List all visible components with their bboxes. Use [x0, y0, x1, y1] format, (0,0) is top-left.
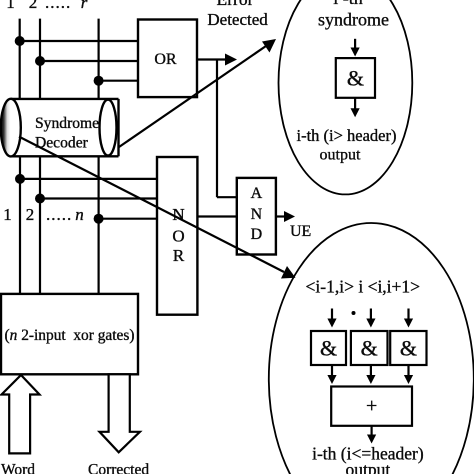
wire syndrome bit n vertical (bottom) — [97, 156, 99, 294]
svg-text:output: output — [320, 147, 361, 164]
arrow out of plus box — [371, 426, 373, 437]
& box 2 — [351, 331, 388, 365]
svg-text:&: & — [361, 336, 378, 361]
wire OR output branch down to AND — [216, 60, 218, 198]
wire syndrome bit 2 vertical (bottom) — [39, 156, 41, 294]
arrow out of & box 2 — [370, 365, 372, 378]
syndrome decoder cylinder body — [11, 99, 119, 156]
svg-text:i-th (i> header): i-th (i> header) — [296, 126, 396, 145]
top ellipse (i-th syndrome detail) — [279, 0, 413, 194]
svg-text:Syndrome: Syndrome — [35, 115, 99, 132]
svg-text:syndrome: syndrome — [318, 10, 389, 30]
junction dot bit1/OR — [15, 36, 25, 46]
svg-text:1: 1 — [3, 205, 12, 224]
svg-text:&: & — [347, 66, 364, 91]
wire NOR input 1 horizontal — [20, 178, 157, 180]
arrow into & box 3 — [407, 309, 409, 322]
svg-text:O: O — [172, 227, 184, 246]
plus box — [331, 387, 412, 426]
junction dot bit2/OR — [35, 56, 45, 66]
wire NOR output to AND — [197, 215, 236, 217]
diagonal arrow decoder to top ellipse — [119, 46, 266, 147]
svg-text:r: r — [81, 0, 88, 12]
svg-text:Word: Word — [1, 462, 35, 474]
svg-text:2: 2 — [26, 205, 35, 224]
junction dot bitn/NOR — [94, 214, 104, 224]
arrow out of & box 3 — [407, 365, 409, 378]
OR gate box — [138, 20, 197, 98]
junction dot bitr/OR — [94, 76, 104, 86]
svg-text:.....: ..... — [45, 0, 71, 12]
period dot — [352, 311, 356, 315]
wire OR input 2 horizontal — [40, 60, 138, 62]
NOR gate box — [157, 157, 197, 315]
svg-text:Detected: Detected — [207, 10, 268, 29]
svg-text:+: + — [366, 395, 377, 417]
top & box — [336, 58, 375, 98]
arrow into & box 2 — [370, 309, 372, 322]
& box 1 — [311, 331, 346, 365]
svg-text:(n 2-input xor gates): (n 2-input xor gates) — [5, 327, 135, 344]
svg-text:<i-1,i> i <i,i+1>: <i-1,i> i <i,i+1> — [306, 277, 421, 297]
svg-text:n: n — [75, 205, 84, 224]
junction dot bit2/NOR — [35, 194, 45, 204]
svg-text:i -th: i -th — [333, 0, 363, 8]
svg-text:OR: OR — [154, 51, 177, 68]
junction dot bit1/NOR — [15, 174, 25, 184]
arrow out of top & box — [354, 98, 356, 111]
wire syndrome bit 1 vertical (top) — [19, 19, 21, 99]
svg-text:D: D — [251, 226, 263, 243]
wire OR input 1 horizontal — [20, 40, 138, 42]
wire branch into AND — [217, 196, 237, 198]
arrow into & box 1 — [331, 309, 333, 322]
word input hollow up-arrow — [2, 375, 40, 453]
AND gate box — [237, 178, 276, 255]
arrow out of & box 1 — [331, 365, 333, 378]
svg-text:A: A — [251, 185, 263, 202]
syndrome decoder right ellipse — [100, 100, 117, 156]
svg-text:.....: ..... — [46, 205, 72, 224]
corrected output hollow down-arrow — [100, 374, 140, 452]
& box 3 — [390, 331, 426, 365]
wire OR output — [197, 58, 228, 60]
bottom ellipse (i<=header detail) — [269, 223, 474, 474]
svg-text:R: R — [173, 246, 185, 265]
svg-text:Corrected: Corrected — [88, 462, 149, 474]
wire NOR input 3 horizontal — [99, 218, 157, 220]
arrowhead Error Detected — [225, 54, 237, 66]
svg-text:Error: Error — [217, 0, 254, 9]
svg-text:1: 1 — [6, 0, 15, 12]
diagonal arrow decoder to bottom ellipse — [19, 137, 284, 272]
scan artifact patch — [0, 350, 8, 374]
svg-text:output: output — [346, 460, 391, 474]
wire OR input 3 horizontal — [99, 80, 138, 82]
xor gates box — [1, 294, 138, 374]
wire syndrome bit 2 vertical (top) — [39, 19, 41, 99]
svg-text:2: 2 — [29, 0, 38, 12]
wire syndrome bit r vertical (top) — [97, 19, 99, 99]
wire syndrome bit 1 vertical (bottom) — [19, 156, 21, 294]
svg-text:UE: UE — [290, 223, 311, 240]
svg-text:&: & — [320, 336, 337, 361]
wire NOR input 2 horizontal — [40, 197, 157, 199]
arrowhead UE — [284, 211, 295, 222]
svg-text:&: & — [400, 336, 417, 361]
wire AND output (UE) — [276, 215, 287, 217]
svg-text:N: N — [251, 206, 263, 223]
arrow into top & box — [354, 39, 356, 51]
